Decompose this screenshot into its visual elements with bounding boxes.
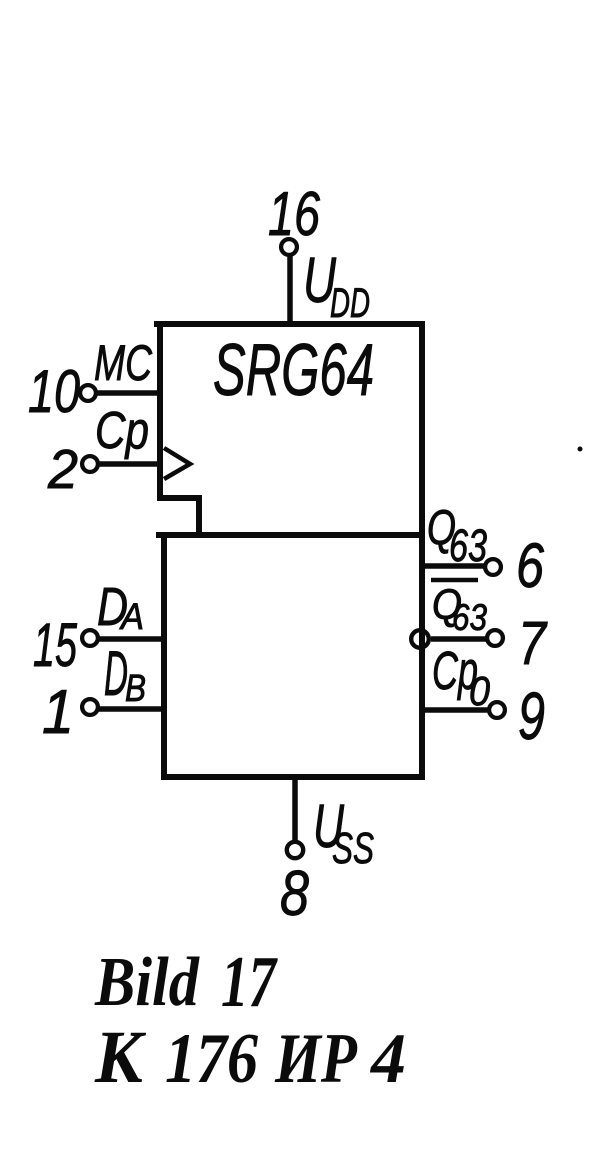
svg-text:B: B [125, 668, 146, 710]
svg-text:1: 1 [42, 678, 74, 747]
svg-text:10: 10 [28, 358, 80, 425]
svg-text:7: 7 [518, 609, 548, 677]
wire [196, 495, 202, 538]
pin 10 wire [96, 390, 161, 396]
pin 16 terminal [281, 239, 297, 255]
pin 6 terminal [485, 559, 501, 575]
svg-text:2: 2 [47, 438, 78, 500]
ink speck [578, 447, 583, 452]
svg-text:4: 4 [369, 1020, 406, 1098]
svg-text:176: 176 [165, 1020, 258, 1098]
wire [161, 532, 167, 780]
pin 16 wire [287, 255, 293, 324]
svg-text:A: A [119, 596, 144, 637]
pin 1 terminal [82, 699, 98, 715]
svg-text:SS: SS [332, 824, 374, 873]
svg-text:15: 15 [33, 611, 78, 679]
svg-text:8: 8 [280, 857, 309, 929]
svg-text:SRG64: SRG64 [213, 330, 374, 411]
wire [161, 774, 425, 780]
svg-text:Cp: Cp [95, 402, 149, 460]
wire [419, 321, 425, 780]
svg-text:9: 9 [518, 679, 545, 754]
pin 15 terminal [82, 630, 98, 646]
clock input triangle [164, 448, 190, 479]
pin 10 terminal [80, 385, 96, 401]
svg-text:Bild: Bild [94, 944, 200, 1021]
pin 15 wire [98, 636, 163, 642]
wire [157, 495, 202, 501]
pin 9 wire [421, 707, 490, 713]
pin 2 wire [98, 461, 161, 467]
wire [156, 532, 425, 538]
pin 7 wire [431, 636, 488, 642]
pin 7 inversion bubble [411, 630, 429, 648]
svg-text:DD: DD [330, 279, 370, 326]
wire [154, 321, 425, 327]
pin 8 terminal [287, 842, 303, 858]
svg-text:16: 16 [268, 180, 320, 249]
pin 9 terminal [489, 702, 505, 718]
svg-text:17: 17 [221, 941, 278, 1022]
svg-text:ИР: ИР [274, 1020, 357, 1098]
svg-text:63: 63 [449, 520, 487, 571]
pin 7 terminal [487, 630, 503, 646]
svg-text:63: 63 [452, 597, 487, 638]
svg-text:MC: MC [94, 335, 153, 391]
pin 6 wire [421, 563, 487, 569]
svg-text:0: 0 [469, 668, 490, 714]
pin 8 wire [292, 777, 298, 843]
pin 2 terminal [82, 456, 98, 472]
overbar of inverted Q63 [431, 578, 478, 583]
svg-text:К: К [94, 1016, 147, 1099]
wire [157, 321, 163, 500]
svg-text:6: 6 [516, 531, 545, 601]
pin 1 wire [98, 706, 163, 712]
